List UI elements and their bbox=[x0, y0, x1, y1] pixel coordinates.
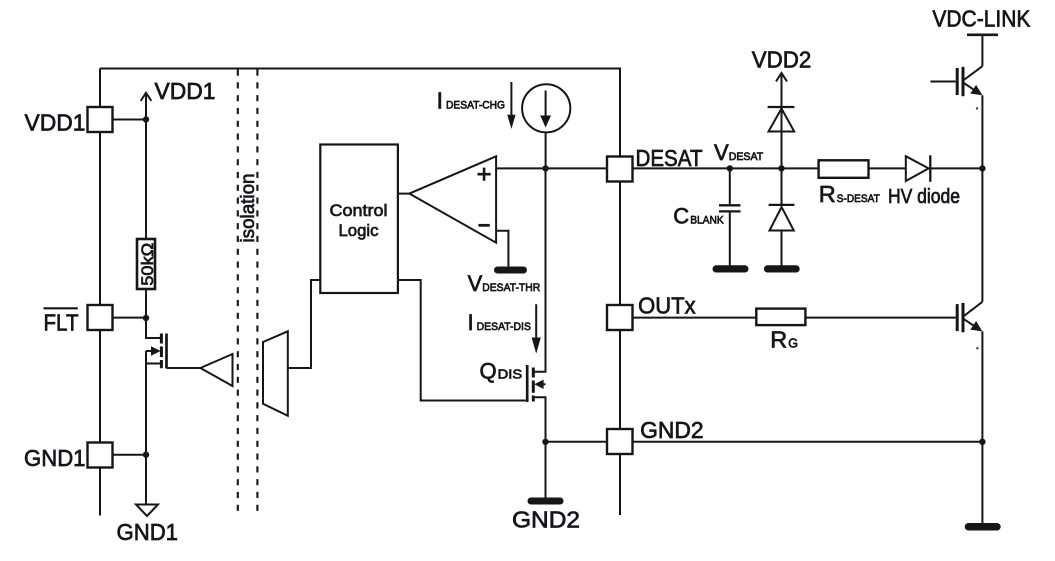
svg-text:GND2: GND2 bbox=[512, 507, 580, 533]
svg-text:VDD1: VDD1 bbox=[25, 110, 86, 136]
svg-text:GND1: GND1 bbox=[24, 445, 86, 471]
svg-text:FLT: FLT bbox=[44, 310, 79, 336]
svg-text:GND1: GND1 bbox=[117, 519, 179, 545]
svg-text:DESAT: DESAT bbox=[636, 145, 703, 171]
svg-text:Control: Control bbox=[330, 201, 388, 220]
svg-text:isolation: isolation bbox=[238, 174, 259, 243]
svg-text:Logic: Logic bbox=[339, 221, 379, 240]
svg-text:VDD2: VDD2 bbox=[752, 47, 812, 73]
svg-text:VDC-LINK: VDC-LINK bbox=[932, 6, 1031, 32]
svg-text:HV diode: HV diode bbox=[888, 185, 960, 208]
svg-text:50kΩ: 50kΩ bbox=[138, 243, 157, 286]
svg-text:VDD1: VDD1 bbox=[155, 78, 216, 104]
svg-text:OUTx: OUTx bbox=[638, 293, 696, 319]
svg-text:GND2: GND2 bbox=[640, 417, 704, 443]
